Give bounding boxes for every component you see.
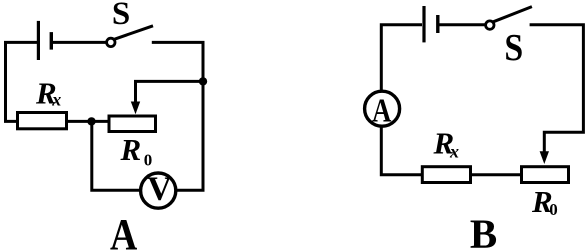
wire: battery to switch (A)	[53, 41, 106, 44]
svg-text:0: 0	[144, 151, 153, 170]
resistor Rx box (circuit A)	[18, 113, 67, 129]
label R0 (circuit A)	[120, 132, 153, 170]
arrowhead of rheostat wiper (B)	[540, 151, 549, 164]
rheostat R0 box (circuit A)	[109, 116, 156, 132]
label R0 (circuit B)	[531, 184, 558, 219]
label Rx (circuit B)	[433, 126, 460, 162]
svg-text:x: x	[51, 90, 61, 110]
svg-text:S: S	[504, 26, 523, 68]
svg-text:x: x	[449, 141, 459, 161]
wire: switch to top-right corner, right vertical, wiper feed (B)	[530, 25, 584, 152]
wire: B top-left corner down to ammeter	[381, 25, 422, 92]
junction node on right wire (A)	[199, 77, 207, 85]
svg-text:B: B	[470, 211, 497, 250]
wire: Rx to R0 (B)	[471, 173, 523, 176]
wire: Rx to R0 (A)	[66, 120, 108, 123]
battery cell (circuit A)	[38, 21, 51, 60]
switch S (circuit B)	[486, 7, 532, 30]
wire: wiper feed from right wire down to rheostat (A)	[136, 81, 204, 103]
svg-text:V: V	[147, 170, 172, 207]
wire: A left side + top-left segment	[6, 42, 38, 121]
wire: battery to switch (B)	[440, 23, 486, 26]
wire: junction down to voltmeter branch (A)	[92, 121, 142, 190]
wire: switch to top-right corner + right vertical (A)	[152, 42, 203, 190]
svg-text:0: 0	[549, 200, 558, 219]
resistor Rx box (circuit B)	[422, 167, 470, 183]
voltmeter V (circuit A)	[141, 170, 176, 208]
wire: ammeter down to bottom-left corner then to Rx (B)	[381, 125, 422, 174]
svg-text:A: A	[110, 209, 138, 250]
svg-text:A: A	[372, 91, 391, 129]
junction node between Rx and R0 (A)	[87, 117, 95, 125]
svg-text:R: R	[120, 132, 142, 167]
rheostat R0 box (circuit B)	[522, 167, 569, 183]
switch S (circuit A)	[107, 26, 153, 47]
svg-text:S: S	[112, 0, 130, 32]
ammeter A (circuit B)	[365, 91, 400, 129]
label Rx (circuit A)	[35, 75, 61, 110]
battery cell (circuit B)	[424, 6, 438, 42]
arrowhead of rheostat wiper (A)	[131, 102, 140, 115]
